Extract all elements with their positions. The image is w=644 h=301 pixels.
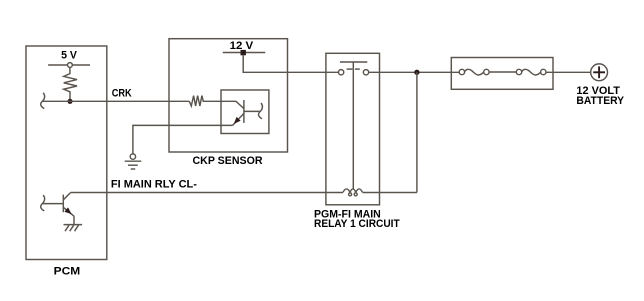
svg-text:5 V: 5 V: [61, 50, 78, 62]
node junction dot bus: [414, 70, 419, 75]
transistor Q2 emitter with arrow: [63, 207, 74, 216]
battery BT1 positive terminal: [591, 64, 608, 81]
wire break symbol at Q2 base: [41, 195, 45, 211]
label FI MAIN RLY CL-: [111, 179, 197, 191]
wire CRK horizontal: [42, 100, 189, 102]
wire junction riser vertical: [416, 72, 418, 192]
relay contact circle left: [338, 70, 343, 75]
svg-text:BATTERY: BATTERY: [576, 95, 624, 107]
fuse F2 terminals: [516, 69, 546, 74]
wire fuse box to battery: [546, 71, 591, 73]
5 V terminal circle: [68, 63, 73, 68]
transistor Q1 emitter with arrow: [233, 113, 244, 125]
inner sensor element box: [221, 90, 269, 134]
fuse F2 element: [522, 69, 541, 75]
wire relay output to junction: [369, 71, 460, 73]
fuse box: [451, 58, 553, 90]
5 V supply label: [61, 50, 78, 62]
ground G1 (sensor ground): [125, 154, 142, 169]
node junction dot CRK: [67, 99, 72, 104]
relay movable contact dashes: [347, 68, 360, 70]
wire 12V feed down and right to relay: [243, 55, 338, 72]
transistor Q1 collector: [244, 110, 260, 112]
wire break symbol left of CRK: [41, 93, 45, 109]
relay contact circle right: [363, 70, 368, 75]
fuse F1 element: [465, 69, 484, 75]
wire between fuses: [489, 71, 516, 73]
svg-text:CKP SENSOR: CKP SENSOR: [193, 155, 263, 167]
wire emitter down: [73, 216, 75, 224]
transistor Q1 (CKP sensor) base: [221, 100, 244, 123]
PCM box: [26, 46, 107, 260]
transistor Q2 (PCM driver) base: [42, 195, 63, 213]
12 V tap square: [241, 50, 246, 55]
wire break symbol collector output: [259, 103, 263, 119]
label 12 VOLT BATTERY: [576, 85, 624, 107]
12 V supply label: [230, 40, 254, 52]
5 V supply bar: [48, 64, 90, 66]
resistor R2 (CKP series): [189, 96, 221, 106]
relay coil L1: [343, 189, 363, 196]
svg-text:CRK: CRK: [112, 87, 132, 99]
svg-text:PCM: PCM: [54, 266, 80, 278]
resistor R1 (pull-up in PCM): [64, 67, 77, 101]
relay armature T bar and link: [340, 62, 367, 189]
ground G2 (PCM chassis ground): [64, 225, 83, 232]
relay box PGM-FI: [326, 53, 380, 205]
CKP SENSOR box: [169, 39, 288, 152]
label CKP SENSOR: [193, 155, 263, 167]
label CRK: [112, 87, 132, 99]
wire FI MAIN RLY CL-: [71, 192, 343, 194]
svg-text:RELAY 1 CIRCUIT: RELAY 1 CIRCUIT: [314, 218, 400, 230]
12 V supply bar: [223, 52, 266, 54]
wire coil to junction riser: [363, 192, 417, 194]
wire emitter to ground: [133, 125, 233, 154]
transistor Q2 collector: [63, 193, 70, 200]
label PGM-FI MAIN RELAY 1 CIRCUIT: [314, 209, 400, 230]
fuse F1 terminals: [459, 69, 489, 74]
svg-text:FI MAIN RLY CL-: FI MAIN RLY CL-: [111, 179, 197, 191]
label PCM: [54, 266, 80, 278]
